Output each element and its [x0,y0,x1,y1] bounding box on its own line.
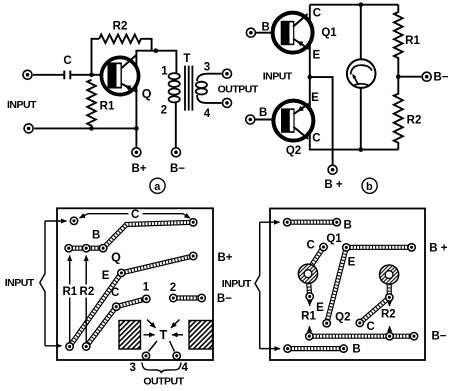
svg-text:E: E [312,49,320,61]
svg-text:OUTPUT: OUTPUT [218,83,259,95]
svg-text:2: 2 [170,282,176,294]
svg-text:E: E [102,270,110,282]
svg-text:R1: R1 [301,310,316,322]
svg-text:INPUT: INPUT [263,71,293,83]
svg-text:B−: B− [217,293,232,305]
svg-text:Q2: Q2 [335,311,350,323]
svg-text:C: C [307,239,315,251]
svg-text:T: T [183,53,190,65]
svg-text:B +: B + [324,179,343,191]
svg-text:R2: R2 [80,286,95,298]
svg-text:3: 3 [204,61,210,73]
svg-text:C: C [111,287,119,299]
svg-text:INPUT: INPUT [7,99,37,111]
svg-text:E: E [348,256,356,268]
svg-text:R1: R1 [405,35,420,47]
svg-text:B: B [352,344,360,356]
svg-text:INPUT: INPUT [5,277,35,289]
svg-text:B: B [261,22,269,34]
svg-text:C: C [312,132,320,144]
svg-text:B−: B− [170,163,185,175]
svg-text:B−: B− [433,72,448,84]
svg-text:4: 4 [204,108,211,120]
svg-text:Q: Q [142,87,152,101]
svg-text:Q2: Q2 [286,145,301,157]
svg-text:C: C [131,209,139,221]
svg-text:B: B [92,230,100,242]
svg-text:R2: R2 [113,21,128,33]
svg-text:R1: R1 [100,101,115,113]
svg-text:B+: B+ [217,252,232,264]
svg-text:OUTPUT: OUTPUT [143,375,184,387]
svg-text:C: C [366,321,374,333]
svg-text:B−: B− [431,331,446,343]
svg-text:Q: Q [111,250,121,264]
svg-text:2: 2 [161,105,167,117]
svg-text:1: 1 [143,282,150,294]
svg-text:R2: R2 [407,115,422,127]
svg-text:B +: B + [429,242,448,254]
svg-text:Q1: Q1 [326,233,342,245]
svg-text:3: 3 [129,362,135,374]
svg-text:INPUT: INPUT [222,278,252,290]
svg-text:4: 4 [181,362,188,374]
svg-text:B+: B+ [131,163,146,175]
svg-text:a: a [154,181,161,193]
svg-text:1: 1 [161,66,168,78]
svg-text:T: T [159,328,167,342]
svg-text:R2: R2 [381,309,396,321]
svg-text:C: C [313,7,321,19]
svg-text:E: E [311,92,319,104]
svg-text:E: E [316,302,324,314]
svg-text:b: b [366,181,373,193]
svg-text:B: B [344,219,352,231]
svg-text:C: C [63,55,71,67]
svg-text:B: B [259,107,267,119]
svg-text:Q1: Q1 [321,27,337,39]
svg-text:R1: R1 [62,286,77,298]
